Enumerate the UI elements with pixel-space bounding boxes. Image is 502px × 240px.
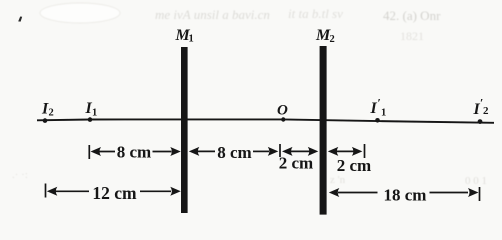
svg-text:me ivA unsil a bavi.cn: me ivA unsil a bavi.cn [155,7,270,22]
svg-text:2 cm: 2 cm [279,154,313,173]
svg-text:1: 1 [92,108,97,119]
svg-text:2 cm: 2 cm [337,156,371,175]
svg-text:1: 1 [189,34,194,45]
svg-text:2: 2 [483,105,489,117]
svg-text:8 cm: 8 cm [217,143,251,162]
svg-text:2: 2 [49,108,54,119]
svg-text:42. (a) Onr: 42. (a) Onr [383,8,441,23]
svg-text:O: O [277,103,288,119]
svg-text:2: 2 [330,34,335,45]
svg-text:1821: 1821 [400,29,424,43]
svg-text:z 'n: z 'n [330,174,346,186]
svg-text:I: I [370,100,378,117]
svg-text:.· ·:: .· ·: [12,169,28,181]
svg-text:12 cm: 12 cm [92,183,137,203]
svg-text:18 cm: 18 cm [384,185,427,204]
svg-text:1: 1 [381,108,386,119]
svg-text:8 cm: 8 cm [117,142,151,161]
svg-text:0 0 1: 0 0 1 [465,175,487,187]
svg-text:it ta b.tl sv: it ta b.tl sv [288,6,343,21]
